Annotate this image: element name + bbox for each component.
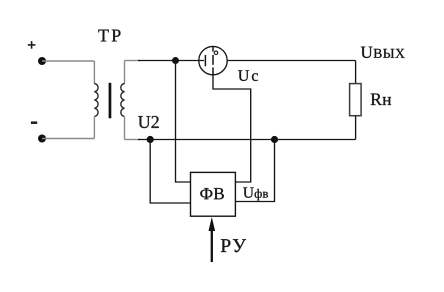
label U2 — [138, 116, 159, 128]
terminal + symbol — [28, 41, 36, 49]
label RU — [221, 239, 246, 252]
node: plus input terminal dot — [38, 57, 46, 65]
label Uvykh — [361, 47, 405, 58]
block FV box — [191, 172, 236, 216]
wire: FV right lower output up to right bus dot — [235, 140, 274, 202]
wire: primary top lead — [42, 60, 94, 62]
wire: top wire to tube anode — [138, 60, 204, 62]
wire: primary bottom lead — [42, 138, 94, 140]
wire: from left bus dot down to FV left lower input — [150, 140, 190, 204]
label Ufv — [243, 187, 268, 200]
wire: secondary bottom stub — [125, 139, 141, 141]
control input RU arrow — [209, 217, 216, 262]
label Rn — [371, 94, 391, 105]
transformer TP primary winding — [94, 61, 98, 139]
tube grid dashed electrode — [212, 47, 214, 75]
transformer TP core — [109, 83, 112, 119]
wire: bottom bus — [138, 139, 356, 141]
wire: from top junction down to FV left upper input — [176, 61, 191, 183]
wire: load top lead — [355, 61, 357, 84]
terminal - symbol — [31, 121, 37, 124]
node: right bus junction dot — [271, 136, 278, 143]
wire: secondary top stub — [125, 60, 141, 62]
node: left bus junction dot — [147, 136, 154, 143]
node: minus input terminal dot — [38, 135, 46, 143]
resistor Rn — [350, 84, 362, 116]
tube cathode dot circle — [214, 51, 218, 55]
transformer TP secondary winding — [121, 61, 125, 140]
tube U1 envelope — [199, 46, 227, 74]
label TP — [98, 30, 120, 42]
label FV — [200, 188, 224, 199]
label Uc — [238, 70, 258, 81]
tube anode bar — [204, 55, 206, 66]
wire: tube cathode lead down to FV right upper input — [213, 75, 251, 182]
wire: load bottom lead — [355, 116, 357, 140]
wire: tube output to load — [227, 60, 355, 62]
node: top junction dot — [172, 57, 179, 64]
